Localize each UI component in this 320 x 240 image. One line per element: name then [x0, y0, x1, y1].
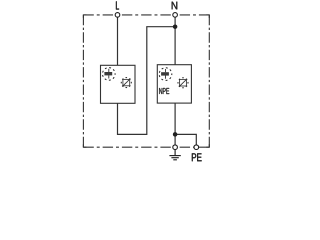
terminal N: [173, 13, 178, 18]
surge arrester N-PE spark gap module (NPE): [157, 65, 191, 103]
SPD1 disconnector / fault indicator: [121, 78, 131, 88]
junction at PE branch: [173, 132, 178, 137]
label L: [116, 1, 119, 9]
junction at N branch: [173, 24, 178, 29]
enclosure outline (dash-dot device boundary): [83, 15, 209, 147]
terminal L: [115, 13, 120, 18]
wire N branch to SPD1 bottom: [118, 27, 176, 135]
surge arrester SPD1 (varistor protection module): [101, 65, 136, 103]
terminal N-PE (to earth): [173, 145, 178, 150]
wire junction to PE terminal: [175, 134, 196, 147]
terminal PE: [194, 145, 199, 150]
wire L to SPD1 top: [117, 15, 119, 65]
wire NPE module bottom to PE junction: [174, 103, 176, 147]
ground symbol (earth): [169, 150, 180, 160]
label PE: [192, 153, 202, 161]
label NPE: [159, 88, 169, 94]
NPE disconnector / fault indicator: [178, 78, 188, 88]
SPD1 varistor element in pluggable module (dashed circle): [103, 68, 116, 81]
NPE spark gap element in pluggable module (dashed circle): [159, 68, 172, 81]
label N: [172, 2, 178, 10]
wire N to NPE module top: [174, 15, 176, 65]
